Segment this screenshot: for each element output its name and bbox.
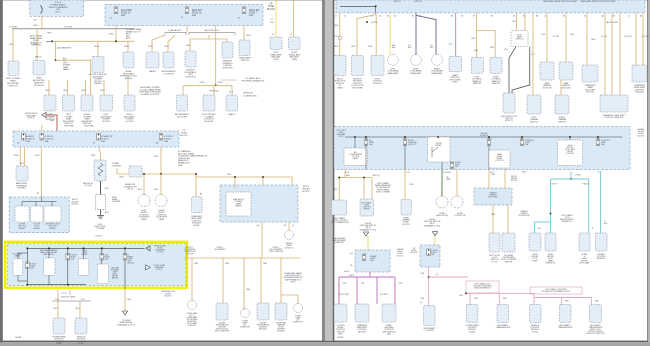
svg-text:ORG: ORG bbox=[154, 189, 159, 191]
junction bbox=[48, 248, 50, 250]
fuse: A BEAM FUSE bbox=[123, 254, 127, 261]
lamp: RIGHT FRONT CONSOLE COURTESY LAMP bbox=[155, 195, 167, 207]
wire bbox=[367, 236, 369, 250]
connector: RADIO bbox=[146, 52, 159, 68]
svg-text:(C/G/P): (C/G/P) bbox=[601, 36, 607, 38]
svg-text:ORG: ORG bbox=[91, 155, 96, 157]
relay: DOOR LOCK RELAY bbox=[31, 206, 44, 222]
connector: TRANSFER CASE SHIFT CONTROL MODULE (wide) bbox=[600, 95, 628, 112]
ground: G201 bbox=[97, 215, 104, 218]
svg-text:B4/J1 (2): B4/J1 (2) bbox=[373, 175, 380, 177]
wire bbox=[376, 277, 378, 304]
connector: REAR WINDOW DEFOGGER GRID bbox=[449, 56, 462, 71]
svg-text:W/RLASFUSE 2A: W/RLASFUSE 2A bbox=[480, 132, 488, 137]
wire bbox=[281, 295, 298, 304]
wire bbox=[404, 137, 406, 139]
wire bbox=[509, 47, 516, 93]
fuse: W/RLAS FUSE bbox=[487, 139, 491, 146]
fuse block: I/P FUSE BLOCK (bottom strip) bbox=[13, 131, 179, 147]
wire bbox=[101, 248, 103, 264]
connector: PARK NEUTRAL POSITION SWITCH bbox=[382, 304, 396, 322]
svg-text:16398: 16398 bbox=[15, 337, 22, 339]
svg-text:4 DOOR: 4 DOOR bbox=[64, 26, 72, 28]
connector: LEFT OUTSIDE REAR-VIEW MIRROR bbox=[471, 57, 483, 73]
off-page arrow: FROM RDO3 bbox=[42, 112, 46, 117]
svg-text:(BODY)RELAYBLOCK: (BODY)RELAYBLOCK bbox=[511, 176, 518, 182]
svg-text:ORG: ORG bbox=[227, 174, 232, 176]
wire bbox=[635, 13, 637, 65]
svg-text:4.0L: 4.0L bbox=[81, 299, 85, 301]
svg-text:C2: C2 bbox=[344, 15, 346, 17]
junction bbox=[27, 284, 29, 286]
svg-text:RADIO: RADIO bbox=[149, 70, 156, 73]
svg-text:ORG: ORG bbox=[119, 177, 124, 179]
wire bbox=[488, 146, 490, 170]
fuse: TRUNK/GL FUSE bbox=[520, 139, 524, 146]
lamp: LEFT FRONT CONSOLE COURTESY LAMP bbox=[138, 195, 150, 207]
svg-text:B2: B2 bbox=[513, 15, 515, 17]
wire bbox=[404, 170, 406, 200]
wire bbox=[18, 275, 27, 281]
wire bbox=[389, 13, 391, 55]
wire bbox=[356, 277, 358, 304]
wire bbox=[455, 13, 457, 57]
lamp: CARGO LAMP (UTILITY) bbox=[285, 231, 294, 240]
wire bbox=[35, 202, 37, 206]
svg-text:SEAT HARN UNDER LEFT FRONT SEA: SEAT HARN UNDER LEFT FRONT SEAT bbox=[543, 0, 577, 3]
wire bbox=[611, 13, 613, 95]
junction bbox=[465, 293, 467, 295]
svg-text:ORG: ORG bbox=[541, 34, 546, 36]
wire bbox=[48, 248, 50, 258]
wire bbox=[40, 197, 42, 202]
junction bbox=[569, 136, 571, 138]
connector: DOME & HIGH MOUNT STOP LAMP bbox=[579, 233, 590, 251]
connector: MULTI-FUNCTION SWITCH bbox=[334, 56, 346, 76]
relay block: BODY RELAY BLOCK (right) bbox=[220, 185, 298, 222]
connector: AUTOMATIC TRANSMISSION (2) bbox=[560, 305, 572, 323]
junction bbox=[428, 276, 430, 278]
svg-text:ORG: ORG bbox=[75, 308, 80, 310]
relay: HORN RELAY bbox=[428, 137, 451, 162]
wire bbox=[186, 26, 188, 33]
fusible link on wire bbox=[338, 37, 341, 40]
svg-text:LEFTOUTSIDEREAR-VUMIRROR: LEFTOUTSIDEREAR-VUMIRROR bbox=[472, 77, 482, 86]
wire bbox=[642, 13, 644, 65]
wire bbox=[52, 40, 134, 42]
connector: AMPLIFIER (PREMIUM SOUND) bbox=[16, 166, 28, 181]
connector: POWERTRAIN CONTROL MODULE (right) bbox=[466, 305, 478, 323]
wire bbox=[99, 147, 101, 160]
wire bbox=[604, 13, 606, 95]
junction bbox=[262, 176, 264, 178]
connector: CLUTCH PEDAL POSITION SWITCH bbox=[334, 304, 347, 322]
wire bbox=[507, 205, 509, 233]
wire bbox=[21, 202, 23, 206]
connector: CRUISE CONTROL MODULE bbox=[596, 233, 608, 251]
wire bbox=[280, 258, 282, 303]
svg-text:AUXILIARY POWEROUTLET HARN NEA: AUXILIARY POWEROUTLET HARN NEARLEFT AND … bbox=[139, 86, 161, 96]
wire: PPL from fuse box bbox=[369, 272, 371, 277]
page gap shading bbox=[324, 0, 334, 341]
connector: LEFT POWER SEAT ADJUSTER SWITCH (2) bbox=[63, 95, 75, 111]
relay: HIGH MOUNT STOP LAMP RELAY bbox=[558, 140, 583, 166]
wire: to transfer case encoder motor bbox=[586, 13, 588, 65]
wire bbox=[124, 248, 126, 289]
junction bbox=[27, 248, 29, 250]
junction bbox=[195, 173, 197, 175]
wire: to multi-function switch bbox=[339, 13, 341, 56]
connector: LEFT AUXILIARY POWER OUTLET bbox=[100, 95, 113, 111]
svg-text:ORG: ORG bbox=[109, 34, 114, 36]
left page sheet bbox=[3, 0, 323, 341]
wire bbox=[22, 201, 57, 203]
wire bbox=[234, 177, 236, 188]
connector: RIGHT AUXILIARY POWER OUTLET bbox=[124, 95, 135, 111]
wire bbox=[275, 0, 277, 37]
svg-text:ORG: ORG bbox=[491, 214, 496, 216]
wire bbox=[116, 168, 118, 174]
svg-text:ORG: ORG bbox=[351, 46, 356, 48]
wire: option bus bbox=[12, 28, 134, 30]
svg-text:C.3.: C.3. bbox=[435, 274, 439, 276]
svg-text:B3: B3 bbox=[156, 143, 158, 145]
wire bbox=[51, 202, 53, 206]
fuse: CIGAR LTR FUSE 2 bbox=[97, 134, 101, 141]
wire bbox=[533, 293, 535, 304]
svg-text:C3: C3 bbox=[350, 265, 352, 267]
off-page arrow: TO HIGH BEAM RELAY bbox=[122, 311, 127, 315]
svg-text:ORG: ORG bbox=[591, 39, 596, 41]
wire: relay coil stub bbox=[354, 137, 356, 148]
fuse block: UNDERHOOD FUSE BLOCK (small) bbox=[355, 250, 390, 272]
svg-text:ORG: ORG bbox=[333, 189, 338, 191]
svg-text:B3: B3 bbox=[200, 194, 202, 196]
wire bbox=[69, 290, 71, 295]
junction bbox=[338, 177, 340, 179]
wire bbox=[243, 258, 245, 310]
connector: LEFT LUMBAR SWITCH bbox=[44, 95, 56, 111]
svg-text:B3: B3 bbox=[451, 15, 453, 17]
wire bbox=[27, 247, 144, 249]
wire bbox=[375, 15, 377, 56]
svg-text:ORG: ORG bbox=[491, 174, 496, 176]
label box: BODY HARN 20 D/I FROM A/C PRESSURE SENSOR BREAKOUT bbox=[466, 281, 499, 293]
svg-text:RIGHTOUTSIDEREAR-VUMIRROR: RIGHTOUTSIDEREAR-VUMIRROR bbox=[491, 77, 501, 86]
connector: UNIVERSAL GARAGE DOOR OPENER MODULE bbox=[275, 303, 287, 320]
svg-text:ORG: ORG bbox=[200, 82, 205, 84]
wire bbox=[213, 86, 215, 95]
svg-text:ORG: ORG bbox=[334, 25, 339, 27]
wire bbox=[534, 297, 592, 299]
wire bbox=[434, 236, 436, 245]
svg-text:LG2: LG2 bbox=[349, 253, 352, 255]
connector: RADIO (2) bbox=[226, 95, 238, 111]
wire: fuse out bbox=[365, 146, 367, 170]
wire bbox=[469, 293, 471, 304]
svg-text:B2: B2 bbox=[37, 193, 39, 195]
wire bbox=[561, 298, 563, 305]
wire bbox=[415, 13, 417, 55]
connector: HIGH MOUNT STOP LAMP (UTILITY) bbox=[529, 233, 541, 251]
svg-text:ORG: ORG bbox=[148, 46, 153, 48]
connector: POWERTRAIN CONTROL MODULE bbox=[53, 318, 65, 334]
connector: RIGHT HEADLAMP BALLAST bbox=[289, 37, 301, 50]
wire bbox=[48, 80, 50, 95]
junction bbox=[55, 59, 57, 61]
wire bbox=[338, 277, 340, 304]
wire bbox=[371, 178, 373, 200]
relay: DRIVER DOOR UNLOCK RELAY bbox=[44, 206, 61, 222]
svg-text:ORG: ORG bbox=[409, 184, 414, 186]
svg-text:A1: A1 bbox=[602, 14, 604, 17]
wire bbox=[46, 115, 57, 131]
wire bbox=[404, 146, 406, 170]
junction bbox=[215, 85, 217, 87]
junction bbox=[115, 41, 117, 43]
wire bbox=[182, 86, 184, 95]
wire: horn out bbox=[441, 162, 443, 170]
lamp: RIGHT LOW-BEAM HEADLAMP bbox=[411, 55, 422, 66]
wire bbox=[231, 86, 233, 95]
connector: VEHICLE CONTROL MODULE bbox=[75, 318, 87, 334]
lamp: DOME LAMP (I/O SUNROOF) 2 bbox=[294, 304, 303, 313]
wire bbox=[222, 258, 224, 303]
connector: CIGAR LIGHTER bbox=[94, 160, 106, 181]
fuse block: UNDERHOOD FUSE BLOCK (inside highlight) bbox=[8, 244, 186, 286]
svg-text:B-G: B-G bbox=[334, 36, 338, 38]
wire bbox=[124, 290, 126, 311]
wire bbox=[41, 125, 43, 131]
svg-text:BODY HARN, 13 D/I FROMBLOWER M: BODY HARN, 13 D/I FROMBLOWER MOTOR BREAK… bbox=[542, 288, 570, 293]
option bracket AUTO/DIG A/C bbox=[189, 33, 235, 35]
horn: HORN (HIGH NOTE) bbox=[436, 196, 448, 208]
heating element symbol bbox=[98, 163, 103, 176]
wire bbox=[588, 179, 590, 233]
junction bbox=[375, 6, 377, 8]
svg-text:A/CD: A/CD bbox=[350, 274, 355, 277]
wire bbox=[261, 222, 263, 258]
wire bbox=[492, 205, 494, 233]
fuse block: I/P FUSE BLOCK (small) bbox=[420, 245, 440, 267]
wire bbox=[190, 35, 209, 51]
connector: LEFT DOOR LOCK SWITCH bbox=[489, 233, 500, 252]
wire bbox=[40, 147, 42, 197]
svg-text:45 /B D/A: 45 /B D/A bbox=[443, 171, 451, 174]
wire bbox=[340, 6, 376, 13]
wire bbox=[516, 13, 518, 31]
svg-text:ORG: ORG bbox=[9, 44, 14, 46]
connector: RIGHT OUTSIDE REAR-VIEW MIRROR bbox=[490, 57, 502, 73]
connector: INSTRUMENT CLUSTER (right page) bbox=[424, 306, 436, 326]
svg-text:BRN/LGN: BRN/LGN bbox=[244, 93, 253, 95]
splice: S203 bbox=[96, 195, 106, 210]
svg-text:ORG: ORG bbox=[14, 155, 19, 157]
wire bbox=[504, 170, 506, 189]
wire bbox=[209, 39, 227, 42]
fuse: AUX PWR FUSE 19 bbox=[114, 7, 118, 14]
wire: to PCM bbox=[57, 301, 59, 318]
connector: MULTIFUNCTION SWITCH (UTILITY) bbox=[503, 93, 515, 113]
svg-text:PPL: PPL bbox=[449, 44, 453, 46]
svg-text:(4/D) MEMORY: (4/D) MEMORY bbox=[57, 48, 72, 50]
wire bbox=[524, 13, 526, 31]
junction bbox=[101, 248, 103, 250]
wire bbox=[339, 276, 395, 278]
connector: AUTOMATIC LEVEL CONTROL AIR COMPRESSOR bbox=[331, 200, 346, 215]
wire: BLK long branch bbox=[512, 47, 530, 93]
wire bbox=[67, 248, 69, 284]
svg-text:16398: 16398 bbox=[337, 337, 344, 339]
wire bbox=[36, 29, 38, 61]
wire bbox=[345, 136, 623, 138]
svg-text:ORG: ORG bbox=[127, 299, 132, 301]
svg-text:ORG: ORG bbox=[33, 44, 38, 46]
off-page arrow: TO TBC FUSE bbox=[145, 265, 150, 270]
wire bbox=[339, 177, 372, 179]
fuse block: top distribution strip bbox=[336, 0, 645, 13]
connector: HEADLAMP SWITCH bbox=[239, 40, 250, 56]
svg-text:(I/O NP1): (I/O NP1) bbox=[380, 294, 388, 296]
wire bbox=[243, 26, 245, 41]
wire: to right seat heater bbox=[565, 13, 567, 62]
svg-text:BODY HARN, 20 D/IFROM A/C PRES: BODY HARN, 20 D/IFROM A/C PRESSURESENSOR… bbox=[474, 283, 493, 290]
svg-text:B1: B1 bbox=[491, 15, 493, 17]
svg-text:B/RTCH(4): B/RTCH(4) bbox=[84, 126, 94, 128]
svg-text:(BX-DT): (BX-DT) bbox=[415, 1, 422, 3]
svg-text:ORG: ORG bbox=[570, 34, 575, 36]
relay contact symbol bbox=[432, 147, 438, 157]
lamp: DOME LAMP (pickup) bbox=[188, 301, 197, 310]
connector: LEFT HEADLAMP BALLAST bbox=[270, 37, 282, 50]
svg-text:D1: D1 bbox=[379, 15, 381, 17]
connector: AUTOMATIC TRANSMISSION bbox=[497, 305, 509, 323]
connector: SEAT HEATER MODULE (LEFT) bbox=[540, 62, 554, 80]
svg-text:PPL: PPL bbox=[361, 283, 365, 285]
left dark edge bbox=[0, 0, 2, 346]
wire bbox=[12, 29, 14, 61]
horn: HORN (LOW NOTE) bbox=[451, 196, 463, 208]
svg-text:ORG: ORG bbox=[47, 33, 52, 35]
junction bbox=[363, 177, 365, 179]
wire bbox=[498, 293, 500, 304]
wire: fuse stub bbox=[365, 137, 367, 139]
fuse: FOG LP FUSE bbox=[26, 262, 30, 269]
connector: SEAT HEATER MODULE (RIGHT) bbox=[559, 62, 573, 80]
svg-text:ORG: ORG bbox=[45, 90, 50, 92]
wire bbox=[143, 174, 145, 195]
wire bbox=[103, 80, 105, 95]
fuse: PCM I/G FUSE 14 bbox=[40, 134, 44, 141]
junction bbox=[365, 136, 367, 138]
svg-text:ORG: ORG bbox=[63, 90, 68, 92]
wire bbox=[115, 26, 117, 42]
right page sheet bbox=[334, 0, 648, 341]
svg-text:AUTO: AUTO bbox=[345, 270, 351, 273]
wire bbox=[456, 170, 458, 197]
wire bbox=[476, 13, 478, 57]
svg-text:D/CT: D/CT bbox=[598, 172, 602, 174]
wire bbox=[357, 13, 376, 56]
wire bbox=[569, 137, 571, 140]
wire: to left seat heater bbox=[546, 13, 548, 62]
svg-text:HORNRELAY: HORNRELAY bbox=[435, 143, 442, 147]
svg-text:(AUTO/DIG A/C): (AUTO/DIG A/C) bbox=[205, 29, 220, 32]
wire bbox=[363, 178, 365, 200]
wire bbox=[339, 170, 345, 201]
junction bbox=[160, 173, 162, 175]
svg-text:(4 RSB): (4 RSB) bbox=[371, 22, 378, 24]
svg-text:B1: B1 bbox=[387, 15, 389, 17]
svg-text:ORG: ORG bbox=[33, 25, 38, 27]
circuit breaker symbol bbox=[41, 6, 43, 14]
fuse: AU/RFF FUSE 22 bbox=[22, 134, 26, 141]
junction bbox=[67, 284, 69, 286]
connector: ELECTRONIC CLIMATE CONTROL MODULE bbox=[203, 95, 215, 111]
svg-text:A D3: A D3 bbox=[20, 162, 24, 165]
svg-text:A6: A6 bbox=[536, 14, 538, 17]
connector: TRANSFER CASE SHIFT CONTROL MODULE (bottom) bbox=[355, 304, 369, 322]
svg-text:B7: B7 bbox=[93, 143, 95, 145]
svg-text:B1: B1 bbox=[412, 15, 414, 17]
svg-text:ORG: ORG bbox=[471, 38, 476, 40]
wire bbox=[196, 174, 292, 186]
svg-text:I/O HP1: I/O HP1 bbox=[553, 36, 559, 38]
wire bbox=[260, 258, 262, 303]
wire bbox=[191, 258, 193, 301]
junction bbox=[488, 136, 490, 138]
svg-text:D2: D2 bbox=[461, 15, 463, 17]
fuse: A2/TR FUSE bbox=[427, 249, 431, 256]
fuse: HDLP SW FUSE 7 bbox=[242, 7, 246, 14]
svg-text:2 DOOR: 2 DOOR bbox=[9, 26, 17, 28]
connector: INSTRUMENT CLUSTER (2) bbox=[177, 95, 188, 111]
connector: FLOOR CONSOLE AUXILIARY POWER OUTLET bbox=[92, 57, 104, 73]
svg-text:ORG: ORG bbox=[225, 263, 230, 265]
svg-text:P2: P2 bbox=[473, 15, 475, 17]
relay: DAYTIME RUNNING LAMP (DRL) RELAY 2 bbox=[97, 264, 108, 284]
connector: SEAT ADJUSTER MEMORY MODULE bbox=[33, 61, 45, 76]
wire bbox=[477, 31, 496, 58]
svg-text:ORG NOT USED: ORG NOT USED bbox=[61, 297, 76, 299]
connector: DRIVER INFORMATION DISPLAY MODULE bbox=[257, 303, 269, 320]
relay: FUEL PUMP RELAY bbox=[78, 259, 89, 276]
connector: AUTOMATIC LEVEL CONTROL RELAY bbox=[360, 199, 374, 216]
svg-text:B1: B1 bbox=[563, 15, 565, 17]
svg-text:ORG: ORG bbox=[246, 289, 251, 291]
svg-text:PPL: PPL bbox=[343, 283, 347, 285]
svg-text:C1 C2: C1 C2 bbox=[61, 293, 68, 295]
svg-text:TRANSFER CASE SHIFTCONTROL MOD: TRANSFER CASE SHIFTCONTROL MODULE bbox=[602, 114, 626, 119]
connector: REAR AUXILIARY POWER OUTLET bbox=[123, 52, 134, 68]
junction bbox=[437, 136, 439, 138]
junction bbox=[597, 136, 599, 138]
wire bbox=[416, 15, 436, 54]
fuse: PCM B FUSE bbox=[66, 254, 70, 261]
svg-text:BODYRELAYBLOCK: BODYRELAYBLOCK bbox=[302, 186, 310, 193]
wire bbox=[195, 177, 197, 197]
wire bbox=[117, 173, 196, 175]
connector: INSTRUMENT CLUSTER bbox=[163, 52, 174, 68]
svg-text:ORG: ORG bbox=[124, 46, 129, 48]
connector: REMOTE KEYLESS CONTROL DOOR LOCK RECEIVER bbox=[352, 56, 364, 76]
wire bbox=[570, 172, 572, 179]
svg-text:SEAT HARN UNDER RIGHT FRONT SE: SEAT HARN UNDER RIGHT FRONT SEAT bbox=[581, 0, 617, 3]
wire bbox=[57, 290, 59, 301]
wire bbox=[184, 257, 300, 259]
svg-text:H2: H2 bbox=[257, 225, 259, 227]
relay: DAYTIME RUNNING LAMP (DRL) RELAY bbox=[44, 258, 55, 275]
